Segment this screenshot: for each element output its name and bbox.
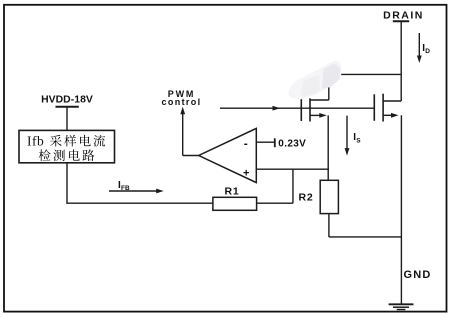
svg-text:R1: R1 — [224, 186, 239, 198]
svg-text:HVDD-18V: HVDD-18V — [41, 95, 93, 106]
svg-text:-: - — [244, 137, 248, 151]
svg-text:0.23V: 0.23V — [278, 139, 306, 150]
svg-text:D: D — [425, 48, 430, 55]
svg-text:S: S — [356, 138, 361, 145]
svg-text:GND: GND — [404, 269, 432, 281]
svg-text:R2: R2 — [298, 192, 313, 204]
svg-text:control: control — [162, 97, 202, 107]
svg-text:+: + — [243, 168, 249, 180]
svg-text:Ifb: Ifb — [27, 134, 44, 149]
svg-text:DRAIN: DRAIN — [383, 9, 424, 21]
